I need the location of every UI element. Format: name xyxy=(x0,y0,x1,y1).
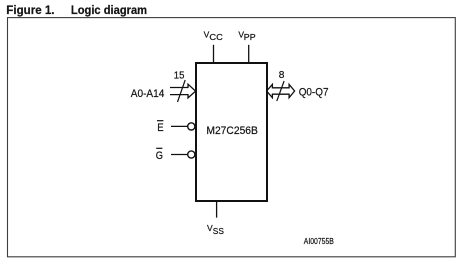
svg-text:AI00755B: AI00755B xyxy=(304,236,334,246)
figure caption xyxy=(6,3,147,17)
svg-text:Q0-Q7: Q0-Q7 xyxy=(299,87,329,99)
svg-text:PP: PP xyxy=(244,32,256,42)
svg-text:SS: SS xyxy=(213,226,224,236)
svg-text:G: G xyxy=(156,150,163,162)
input E label xyxy=(157,121,164,134)
svg-text:15: 15 xyxy=(174,70,185,81)
inversion bubble G xyxy=(188,151,195,158)
svg-text:CC: CC xyxy=(209,32,222,42)
bus arrow A0-A14 xyxy=(170,84,196,98)
svg-text:E: E xyxy=(157,122,163,134)
wire VSS xyxy=(216,201,218,218)
power VSS label xyxy=(207,223,224,236)
inversion bubble E xyxy=(188,123,195,130)
bus arrow Q0-Q7 xyxy=(267,84,295,97)
power VCC label xyxy=(204,29,223,42)
bus slash A0-A14 xyxy=(178,80,186,102)
wire VCC xyxy=(213,45,215,63)
svg-text:A0-A14: A0-A14 xyxy=(131,88,165,100)
power VPP label xyxy=(238,29,256,42)
input G label xyxy=(156,148,163,162)
IC U1 body xyxy=(196,63,267,201)
wire E xyxy=(171,125,188,127)
svg-text:8: 8 xyxy=(279,70,285,81)
wire G xyxy=(171,154,188,156)
svg-text:Logic diagram: Logic diagram xyxy=(71,3,147,17)
bus slash Q0-Q7 xyxy=(277,81,284,101)
svg-text:Figure 1.: Figure 1. xyxy=(6,3,54,17)
svg-text:M27C256B: M27C256B xyxy=(206,125,258,137)
wire VPP xyxy=(248,45,250,63)
